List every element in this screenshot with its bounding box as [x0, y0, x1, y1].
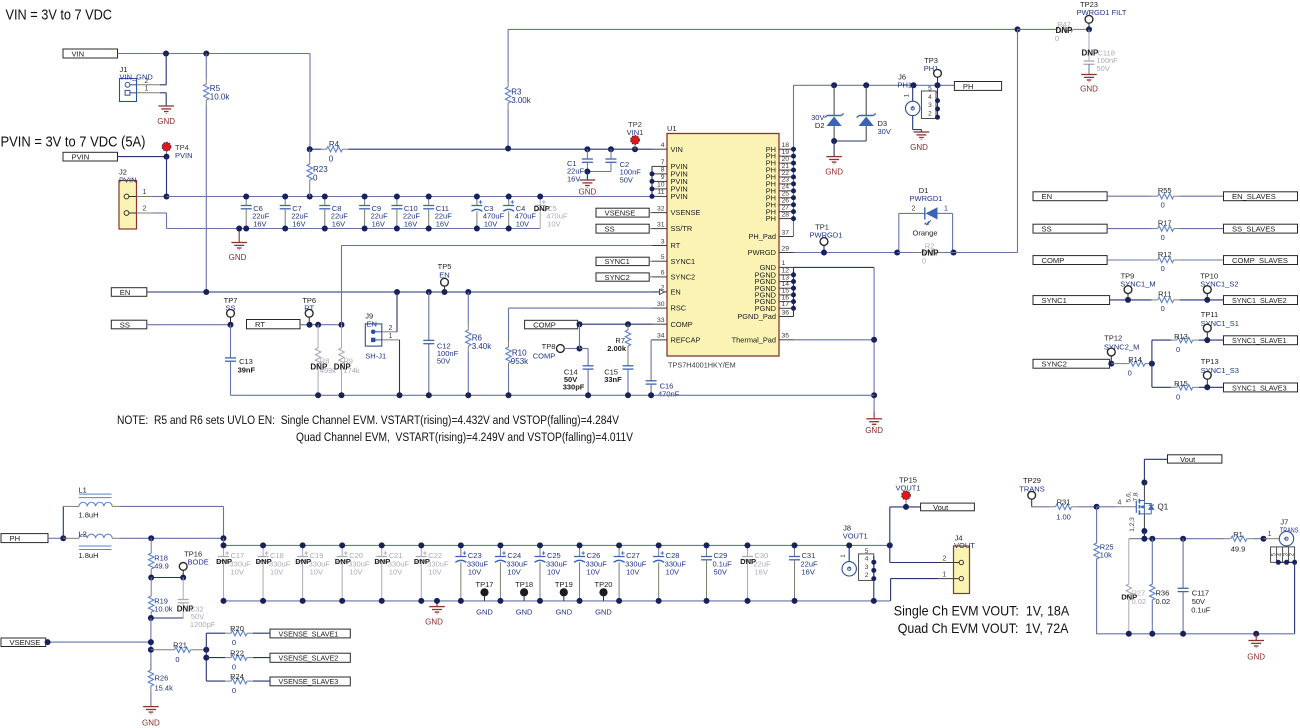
net label VSENSE_SLAVE2 [270, 653, 350, 662]
svg-text:24: 24 [782, 184, 790, 191]
svg-text:1: 1 [143, 189, 147, 196]
wire Thermal_Pad [794, 339, 875, 341]
svg-text:5: 5 [928, 86, 932, 93]
node gnd rail [397, 392, 403, 398]
capacitor C17 DNP [223, 545, 225, 556]
capacitor C8 [324, 197, 326, 206]
svg-text:VIN: VIN [72, 49, 85, 58]
node PGND pin [791, 292, 796, 297]
ground GND J1 [165, 93, 167, 106]
svg-text:EN_SLAVES: EN_SLAVES [1232, 192, 1276, 201]
svg-text:16V: 16V [802, 568, 815, 577]
wire COMP to slave [1180, 259, 1224, 261]
IC U1 TPS7H4001HKY/EM [667, 134, 779, 357]
node R18 top [148, 535, 154, 541]
svg-text:TP8: TP8 [542, 342, 556, 351]
svg-text:16V: 16V [292, 219, 305, 228]
capacitor C26 [579, 545, 581, 556]
wire R18 to TP16 [151, 577, 183, 579]
node TP10 [1204, 297, 1210, 303]
svg-text:16V: 16V [332, 219, 345, 228]
wire D3 to D2 bottom [834, 140, 866, 142]
PVIN pin bracket [651, 166, 653, 196]
net label SS [1033, 224, 1107, 233]
node Vout rail [887, 542, 893, 548]
wire TP4 down to J2 pin1 [166, 157, 168, 197]
resistor R8 DNP [317, 325, 319, 348]
node PGND pin [791, 299, 796, 304]
pin 1 U1 (GND) [779, 266, 794, 268]
capacitor C22 DNP [420, 545, 422, 556]
svg-text:SS: SS [120, 320, 130, 329]
svg-text:Vout: Vout [933, 503, 949, 512]
svg-text:16V: 16V [755, 568, 768, 577]
capacitor C14 [583, 365, 594, 367]
svg-text:SS: SS [1042, 224, 1052, 233]
svg-text:2: 2 [145, 78, 149, 85]
node PH pin [791, 168, 796, 173]
capacitor C118 DNP [1088, 29, 1090, 61]
svg-text:8: 8 [661, 167, 665, 174]
pin 30 U1 (RSC) [652, 307, 667, 309]
svg-text:SYNC1_SLAVE1: SYNC1_SLAVE1 [1232, 336, 1287, 345]
resistor R6 [467, 292, 469, 324]
svg-text:PVIN: PVIN [175, 151, 193, 160]
svg-text:0: 0 [1161, 264, 1165, 273]
capacitor C10 [396, 197, 398, 206]
zener diode D3 30V [865, 85, 867, 115]
svg-text:29: 29 [782, 245, 790, 252]
svg-text:10V: 10V [468, 568, 481, 577]
svg-text:2.00k: 2.00k [607, 344, 627, 353]
wire COMP to C14 [579, 324, 581, 348]
net label PH bottom [1, 534, 48, 543]
svg-text:2: 2 [912, 206, 916, 213]
svg-text:0: 0 [1161, 200, 1165, 209]
svg-text:R12: R12 [1158, 250, 1172, 259]
svg-text:0: 0 [922, 257, 926, 266]
node gnd rail [585, 392, 591, 398]
svg-text:15.4k: 15.4k [155, 684, 174, 693]
svg-text:10V: 10V [349, 568, 362, 577]
capacitor C18 DNP [262, 545, 264, 556]
wire to J4 pin2 [889, 545, 891, 562]
wire PVIN rail top [167, 196, 652, 198]
svg-text:GND: GND [142, 719, 160, 728]
svg-text:R24: R24 [230, 672, 244, 681]
wire SYNC2 branch vertical [1151, 340, 1153, 387]
pin 24 U1 (PH) [779, 190, 794, 192]
wire GND pin to vertical [794, 266, 875, 268]
node gnd rail [625, 392, 631, 398]
svg-text:1200pF: 1200pF [190, 620, 216, 629]
capacitor C4 [508, 197, 510, 206]
pin 22 U1 (PH) [779, 176, 794, 178]
svg-text:953k: 953k [511, 357, 529, 366]
svg-text:EN: EN [1042, 192, 1053, 201]
capacitor C12 [428, 292, 430, 340]
resistor R2 DNP [922, 250, 938, 255]
svg-text:Vout: Vout [1180, 455, 1196, 464]
svg-text:SYNC1_SLAVE3: SYNC1_SLAVE3 [1232, 383, 1287, 392]
svg-text:16V: 16V [372, 219, 385, 228]
svg-text:R21: R21 [173, 641, 187, 650]
node gnd rail [339, 392, 345, 398]
wire SS stub [649, 228, 652, 230]
svg-text:VSENSE_SLAVE3: VSENSE_SLAVE3 [279, 677, 339, 686]
svg-text:TP18: TP18 [515, 580, 533, 589]
net label PH right [954, 82, 1001, 91]
node gnd rail [506, 392, 512, 398]
pin 10 U1 (PVIN) [652, 188, 667, 190]
node TP12 [1108, 361, 1114, 367]
node D3 top [863, 82, 869, 88]
svg-text:R14: R14 [1128, 355, 1142, 364]
node PH branch [60, 535, 66, 541]
pin 34 U1 (REFCAP) [652, 339, 667, 341]
node J2 pin1 [164, 194, 170, 200]
wire J1 pin2 to VIN [165, 54, 167, 85]
resistor R4 [310, 148, 322, 150]
svg-text:39nF: 39nF [238, 365, 256, 374]
capacitor C11 [428, 197, 430, 206]
ground GND U1 [873, 412, 875, 419]
svg-text:SYNC1_SLAVE2: SYNC1_SLAVE2 [1232, 296, 1287, 305]
svg-text:35: 35 [782, 333, 790, 340]
resistor R5 [205, 78, 207, 84]
resistor R1 [1225, 538, 1231, 540]
svg-text:31: 31 [657, 221, 665, 228]
node C1 bottom [584, 169, 590, 175]
svg-text:0: 0 [232, 686, 236, 695]
pin 9 U1 (PVIN) [652, 180, 667, 182]
capacitor C27 [618, 545, 620, 556]
pin 20 U1 (PH) [779, 162, 794, 164]
wire J2 pin2 down [166, 213, 168, 229]
svg-text:17: 17 [782, 301, 790, 308]
svg-text:GND: GND [516, 607, 533, 616]
wire R15 row [1152, 386, 1171, 388]
svg-text:10.0k: 10.0k [154, 605, 173, 614]
svg-text:49.9: 49.9 [1231, 545, 1246, 554]
svg-text:16V: 16V [436, 219, 449, 228]
node COMP box [577, 321, 583, 327]
GND PGND bracket [793, 267, 795, 316]
resistor R24 [206, 680, 225, 682]
svg-text:50V: 50V [620, 175, 633, 184]
wire D1 right [952, 213, 954, 252]
svg-text:VSENSE: VSENSE [605, 208, 636, 217]
svg-text:19: 19 [782, 149, 790, 156]
svg-text:GND: GND [555, 607, 572, 616]
wire Q1 gnd rail [1096, 633, 1294, 635]
ground GND J6 [912, 116, 914, 130]
capacitor C5 DNP [539, 197, 541, 206]
pin 5 U1 (SYNC1) [652, 260, 667, 262]
resistor R27 DNP [1128, 539, 1130, 585]
svg-text:0: 0 [1176, 345, 1180, 354]
connector J1 VIN_GND [120, 79, 137, 102]
wire PVIN rail bottom [167, 228, 541, 230]
wire vsense vertical [150, 618, 152, 670]
node gate R25 [1094, 504, 1100, 510]
ground GND C1 C2 [586, 172, 588, 181]
svg-text:0: 0 [1161, 304, 1165, 313]
wire PWRGD top row [508, 28, 1017, 30]
svg-text:4: 4 [928, 94, 932, 101]
svg-text:4: 4 [865, 556, 869, 563]
resistor R15 [1171, 386, 1177, 388]
node PH pin [791, 188, 796, 193]
node PH pin [791, 216, 796, 221]
net label SYNC2 mid [596, 273, 649, 281]
node R14 branch [1149, 361, 1155, 367]
svg-text:34: 34 [657, 333, 665, 340]
resistor R23 [307, 146, 313, 152]
node TP8 [577, 346, 583, 352]
svg-text:PGND_Pad: PGND_Pad [737, 312, 776, 321]
net label SYNC1_SLAVE3 [1224, 383, 1298, 392]
node COMP R7 [625, 321, 631, 327]
svg-text:30V: 30V [878, 127, 891, 136]
svg-text:1,2,3: 1,2,3 [1129, 517, 1136, 532]
wire D1 left [898, 213, 900, 252]
pin 35 U1 (Thermal_Pad) [779, 339, 794, 341]
svg-text:GND: GND [595, 607, 612, 616]
wire RT row [300, 324, 342, 326]
net label EN_SLAVES [1224, 192, 1298, 201]
node RT-R9 [339, 322, 345, 328]
node TP16 [180, 575, 186, 581]
J7 body pins [1271, 547, 1295, 562]
svg-text:3: 3 [661, 238, 665, 245]
svg-text:10V: 10V [516, 219, 529, 228]
svg-text:37: 37 [782, 229, 790, 236]
svg-text:VOUT1: VOUT1 [843, 532, 868, 541]
pin 25 U1 (PH) [779, 197, 794, 199]
node D1 right [951, 250, 957, 256]
svg-text:7: 7 [661, 159, 665, 166]
capacitor C29 [706, 545, 708, 556]
node rail GND [1253, 631, 1259, 637]
net label SYNC1 right [1033, 296, 1110, 305]
svg-text:SS_SLAVES: SS_SLAVES [1232, 224, 1275, 233]
wire L to rail corner [223, 538, 225, 545]
wire L1 to cap rail [120, 505, 224, 507]
svg-text:33: 33 [657, 317, 665, 324]
node PH pin [791, 154, 796, 159]
svg-text:10V: 10V [547, 568, 560, 577]
svg-text:10V: 10V [270, 568, 283, 577]
svg-text:174k: 174k [343, 366, 360, 375]
pin 23 U1 (PH) [779, 183, 794, 185]
svg-text:SYNC2: SYNC2 [605, 273, 630, 282]
wire GND vertical [873, 267, 875, 411]
wire J9 pin2 to EN [396, 292, 398, 332]
net label EN left [111, 288, 147, 297]
net label SS mid [596, 224, 649, 233]
capacitor C9 [364, 197, 366, 206]
wire R13 row [1152, 339, 1171, 341]
svg-text:SS/TR: SS/TR [671, 224, 693, 233]
node TP15 [903, 504, 909, 510]
net label SYNC1 mid [596, 257, 649, 265]
svg-text:3: 3 [928, 102, 932, 109]
pin 27 U1 (PH) [779, 211, 794, 213]
svg-text:1: 1 [840, 554, 847, 558]
capacitor C6 [245, 197, 247, 206]
wire COMP row [578, 323, 652, 325]
resistor R25 [1096, 507, 1098, 544]
inductor L2 1.8uH [63, 537, 79, 539]
svg-text:GND: GND [157, 117, 175, 126]
node PGND pin [791, 306, 796, 311]
svg-text:GND: GND [579, 188, 597, 197]
pin 13 U1 (PGND) [779, 281, 794, 283]
svg-text:GND: GND [425, 618, 443, 627]
pin 14 U1 (PGND) [779, 287, 794, 289]
svg-text:36: 36 [782, 309, 790, 316]
svg-text:0: 0 [232, 638, 236, 647]
wire J8 bracket [873, 556, 875, 601]
capacitor C15 [623, 365, 634, 367]
svg-text:PVIN: PVIN [119, 175, 137, 184]
wire PVIN row [118, 156, 167, 158]
capacitor C28 [658, 545, 660, 556]
inductor L1 1.8uH [62, 506, 64, 538]
svg-text:RT: RT [255, 320, 265, 329]
svg-text:EN: EN [367, 319, 377, 328]
pin 11 U1 (PVIN) [652, 195, 667, 197]
resistor R31 [1050, 506, 1056, 508]
svg-text:GND: GND [476, 607, 493, 616]
capacitor C7 [284, 197, 286, 206]
svg-text:GND: GND [229, 253, 247, 262]
svg-text:10V: 10V [626, 568, 639, 577]
svg-text:GND: GND [1080, 85, 1098, 94]
wire vout rail bottom [224, 600, 891, 602]
node TP9 [1125, 297, 1131, 303]
node D1 left [894, 250, 900, 256]
wire VIN down to R4 [309, 54, 311, 150]
svg-text:330pF: 330pF [563, 382, 585, 391]
resistor R9 DNP [341, 325, 343, 348]
wire to J4 pin1 [891, 578, 938, 580]
svg-text:0: 0 [175, 655, 179, 664]
svg-text:SYNC1: SYNC1 [671, 257, 696, 266]
svg-text:VSENSE: VSENSE [671, 208, 701, 217]
svg-text:10V: 10V [389, 568, 402, 577]
resistor R11 [1152, 299, 1158, 301]
svg-text:VOUT: VOUT [954, 541, 975, 550]
ground GND D2 D3 [833, 141, 835, 157]
pin 15 U1 (PGND) [779, 294, 794, 296]
svg-text:1.00: 1.00 [1056, 513, 1071, 522]
pin 1 J6 [912, 85, 914, 101]
svg-text:PWRGD1: PWRGD1 [910, 194, 943, 203]
svg-text:SS: SS [605, 224, 615, 233]
wire SS row [147, 324, 231, 326]
node PH pin [791, 147, 796, 152]
svg-text:2: 2 [928, 110, 932, 117]
svg-text:50V: 50V [714, 568, 727, 577]
svg-text:0: 0 [232, 662, 236, 671]
resistor R47 DNP [1018, 28, 1058, 30]
svg-text:16V: 16V [567, 174, 580, 183]
node D2 bottom [831, 138, 837, 144]
svg-text:3.40k: 3.40k [472, 342, 493, 351]
svg-text:R11: R11 [1158, 290, 1171, 299]
capacitor C2 [610, 149, 612, 159]
svg-text:7,8: 7,8 [1133, 492, 1140, 501]
LED D1 symbol [924, 207, 926, 219]
svg-text:10k: 10k [1100, 551, 1112, 560]
node R19 bottom [148, 615, 154, 621]
node PH pin [791, 209, 796, 214]
svg-text:R17: R17 [1158, 218, 1172, 227]
svg-text:10V: 10V [231, 568, 244, 577]
svg-text:10V: 10V [310, 568, 323, 577]
svg-text:3: 3 [865, 564, 869, 571]
svg-text:R55: R55 [1158, 186, 1172, 195]
capacitor C21 DNP [381, 545, 383, 556]
svg-text:GND: GND [865, 426, 883, 435]
svg-text:PVIN = 3V to 7 VDC (5A): PVIN = 3V to 7 VDC (5A) [1, 134, 146, 151]
resistor R21 [151, 649, 175, 651]
svg-text:9: 9 [661, 174, 665, 181]
wire source row [1129, 538, 1225, 540]
ground GND C118 [1081, 74, 1097, 76]
node PH pin [791, 161, 796, 166]
node PH pin [791, 202, 796, 207]
node EN-J9 [394, 289, 400, 295]
node C1 top [584, 146, 590, 152]
svg-text:50V: 50V [437, 357, 450, 366]
svg-text:5: 5 [865, 548, 869, 555]
node J8 gnd rail [871, 598, 877, 604]
svg-text:VSENSE: VSENSE [10, 638, 41, 647]
J8 body pins [859, 554, 874, 581]
capacitor C117 [1182, 539, 1184, 589]
node RT-TP6 [307, 322, 313, 328]
svg-text:D2: D2 [815, 121, 825, 130]
svg-text:VIN: VIN [671, 145, 683, 154]
svg-text:32: 32 [657, 205, 665, 212]
svg-text:GND: GND [910, 143, 928, 152]
capacitor C13 [230, 325, 232, 358]
node rail R36 [1149, 631, 1155, 637]
svg-text:COMP: COMP [671, 320, 693, 329]
wire EN row [147, 291, 660, 293]
svg-text:10V: 10V [507, 568, 520, 577]
wire Vout2 to Q1 [1144, 458, 1167, 460]
resistor R55 [1152, 195, 1158, 197]
svg-text:TP17: TP17 [476, 580, 494, 589]
wire PWRGD vertical right [1017, 29, 1019, 252]
node PGND pin [791, 279, 796, 284]
net label VSENSE_SLAVE3 [270, 677, 350, 686]
wire RSC row [509, 307, 653, 309]
svg-text:RSC: RSC [671, 304, 687, 313]
zener diode D2 30V [833, 85, 835, 115]
net label SYNC2 right [1033, 359, 1110, 368]
node VIN-R5 [203, 51, 209, 57]
net label VIN [63, 49, 118, 58]
capacitor C32 DNP [182, 578, 184, 600]
svg-text:1: 1 [943, 571, 947, 578]
svg-text:4: 4 [1118, 499, 1122, 506]
pin 31 U1 (SS/TR) [652, 228, 667, 230]
